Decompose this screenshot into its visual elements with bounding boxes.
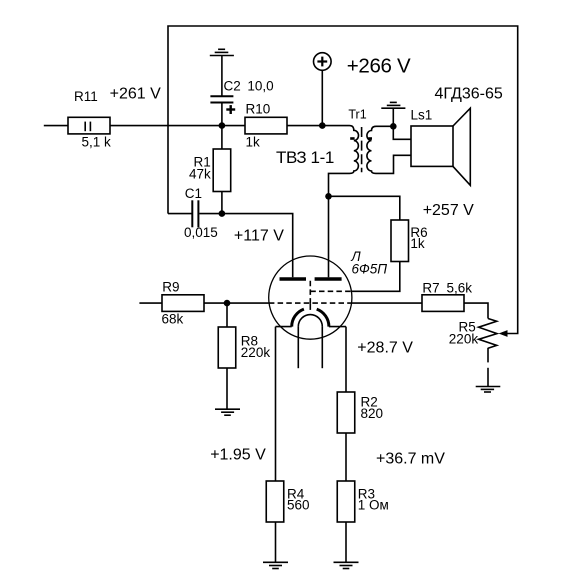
tube triode anode xyxy=(280,277,307,281)
resistor R9 xyxy=(162,280,205,327)
svg-text:R7: R7 xyxy=(422,281,439,296)
wire R3 to ground xyxy=(345,522,347,562)
wire R5 bottom to ground xyxy=(487,348,489,387)
svg-text:+266 V: +266 V xyxy=(347,54,411,77)
ground below R8 xyxy=(215,409,240,415)
potentiometer R5 xyxy=(449,319,497,349)
svg-text:1 Ом: 1 Ом xyxy=(358,498,389,513)
ground above C2 xyxy=(210,49,234,96)
resistor R1 xyxy=(189,149,231,192)
transformer Tr1 primary winding xyxy=(276,107,367,196)
node +117 V label xyxy=(234,227,284,244)
wire R6 bottom to pentode screen grid xyxy=(351,262,399,292)
wire R11 to C2 node to R10 xyxy=(110,125,245,127)
wire input to R11 xyxy=(44,125,68,127)
svg-text:68k: 68k xyxy=(162,312,184,327)
node junction R9/R8/grid xyxy=(224,300,231,307)
node +1.95 V label xyxy=(210,447,266,464)
svg-text:6Ф5П: 6Ф5П xyxy=(352,262,388,277)
resistor R6 xyxy=(391,220,428,262)
svg-text:+1.95 V: +1.95 V xyxy=(210,447,266,464)
potentiometer R5 wiper arrow xyxy=(499,331,507,337)
resistor R11 xyxy=(68,89,111,150)
wire R1 bottom to C1 node xyxy=(221,192,223,214)
node junction C2/bus xyxy=(219,122,226,129)
node +36.7 mV label xyxy=(376,450,445,467)
svg-text:Ls1: Ls1 xyxy=(411,108,433,123)
capacitor C1 xyxy=(168,186,222,240)
wire input to R9 xyxy=(139,302,162,304)
wire R10 to transformer primary xyxy=(287,125,350,127)
resistor R4 xyxy=(266,481,309,522)
svg-text:R9: R9 xyxy=(162,280,179,295)
wire node down to R8 xyxy=(226,303,228,327)
svg-text:+117 V: +117 V xyxy=(234,227,284,244)
ground below R4 xyxy=(263,562,288,568)
ground above speaker node xyxy=(381,102,405,126)
svg-text:5,1 k: 5,1 k xyxy=(82,135,112,150)
svg-text:1k: 1k xyxy=(410,236,425,251)
transformer Tr1 secondary winding xyxy=(367,126,411,173)
tube cathode right xyxy=(317,309,346,327)
svg-text:ТВЗ 1-1: ТВЗ 1-1 xyxy=(276,148,334,167)
svg-text:+261 V: +261 V xyxy=(110,86,161,103)
svg-text:10,0: 10,0 xyxy=(247,78,273,93)
svg-text:820: 820 xyxy=(361,406,384,421)
resistor R10 xyxy=(245,101,287,149)
wire R7 to R5 top xyxy=(464,303,488,318)
tube V1 (Л 6Ф5П) envelope xyxy=(269,249,388,339)
svg-text:R10: R10 xyxy=(246,101,271,116)
tube heater xyxy=(298,315,322,369)
resistor R2 xyxy=(337,392,383,433)
svg-text:+257 V: +257 V xyxy=(423,202,474,219)
tube control grid (dashed) xyxy=(269,302,352,304)
svg-text:C1: C1 xyxy=(185,186,202,201)
wire node to speaker top terminal xyxy=(393,126,411,139)
power terminal +266 V xyxy=(314,53,412,78)
svg-text:1k: 1k xyxy=(246,135,261,150)
node +257 V label xyxy=(423,202,474,219)
wire primary bottom node to R6 xyxy=(329,196,400,220)
node +28.7 V label xyxy=(357,339,413,356)
wire R9 to tube grid xyxy=(204,302,269,304)
svg-text:220k: 220k xyxy=(449,331,479,346)
wire R4 to ground xyxy=(275,522,277,562)
node junction secondary/ground xyxy=(390,123,397,130)
wire triode cathode down to R4 xyxy=(275,327,277,481)
svg-text:R11: R11 xyxy=(74,89,98,104)
resistor R7 xyxy=(422,281,472,312)
wire bus node down to R1 xyxy=(221,126,223,149)
transformer Tr1 core xyxy=(361,127,363,172)
node +261 V label xyxy=(110,86,161,103)
resistor R3 xyxy=(337,481,389,522)
wire +266 terminal down to bus xyxy=(321,70,323,125)
svg-text:+36.7 mV: +36.7 mV xyxy=(376,450,445,467)
wire primary node down to pentode anode xyxy=(328,196,330,277)
ground below R5 xyxy=(476,387,501,393)
svg-text:0,015: 0,015 xyxy=(184,225,218,240)
svg-text:Tr1: Tr1 xyxy=(348,107,366,121)
ground below R3 xyxy=(334,562,359,568)
svg-text:220k: 220k xyxy=(241,345,271,360)
node junction +266/bus xyxy=(319,122,326,129)
svg-text:C2: C2 xyxy=(224,78,241,93)
svg-text:+28.7 V: +28.7 V xyxy=(357,339,413,356)
svg-text:4ГД36-65: 4ГД36-65 xyxy=(435,85,503,102)
speaker Ls1 xyxy=(411,85,503,185)
svg-text:5,6k: 5,6k xyxy=(447,281,473,296)
svg-text:47k: 47k xyxy=(189,167,211,182)
wire C1 node to triode anode xyxy=(222,214,293,278)
tube centre partition (dashed) xyxy=(309,281,311,303)
wire R8 to ground xyxy=(226,368,228,409)
wire pentode cathode down to R2 xyxy=(345,327,347,392)
tube grid stub xyxy=(309,303,311,310)
node junction primary bottom xyxy=(325,193,332,200)
tube pentode screen grid (dashed) xyxy=(310,290,351,292)
tube cathode left xyxy=(276,309,304,327)
capacitor C2 xyxy=(210,78,273,125)
svg-text:560: 560 xyxy=(287,498,310,513)
wire pentode grid to R7 xyxy=(351,302,422,304)
wire feedback frame (C1 left plate up, across top, down right side to R5 wiper) xyxy=(168,26,518,334)
resistor R8 xyxy=(218,327,270,368)
wire R2 to R3 xyxy=(345,433,347,481)
node junction C1/R1/anode line xyxy=(219,210,226,217)
tube pentode anode xyxy=(315,277,342,281)
